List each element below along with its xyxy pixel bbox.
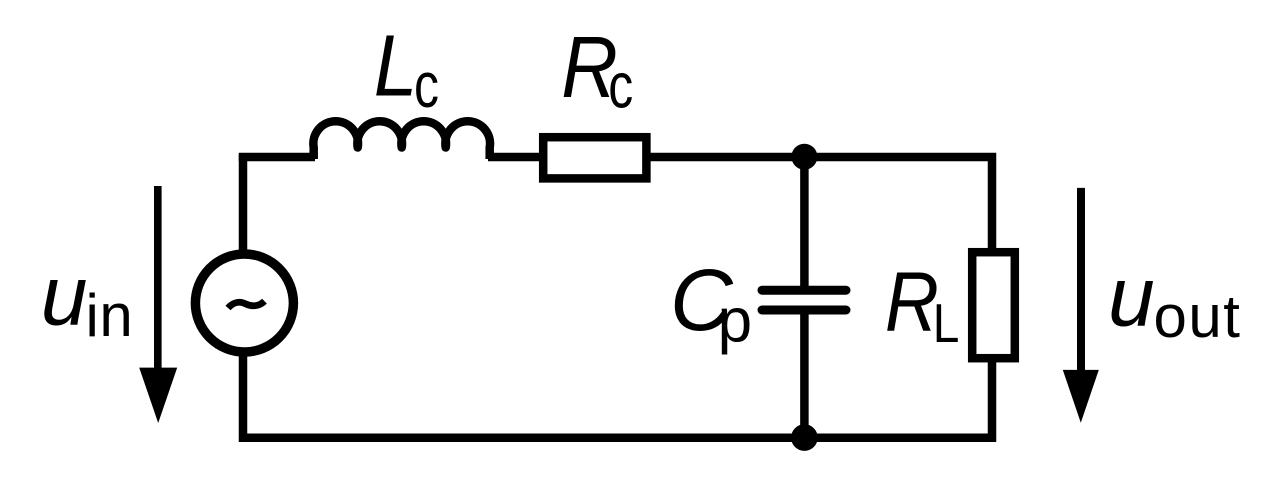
inductor Lc (4 humps) <box>313 121 490 159</box>
svg-text:u: u <box>41 248 88 342</box>
resistor RL (box) <box>972 252 1015 358</box>
resistor Rc (box) <box>543 137 646 178</box>
AC source sine tilde <box>228 301 265 308</box>
svg-text:L: L <box>374 17 418 115</box>
arrow uin (head) <box>139 368 177 423</box>
svg-text:p: p <box>718 287 752 356</box>
svg-text:c: c <box>608 51 633 122</box>
node: top junction dot <box>791 144 817 170</box>
svg-text:in: in <box>86 282 134 349</box>
capacitor Cp bottom plate <box>762 306 846 315</box>
capacitor Cp top plate <box>762 286 846 295</box>
wire: bottom horizontal <box>243 360 992 438</box>
arrow uout (head) <box>1063 370 1099 423</box>
svg-text:L: L <box>933 292 960 354</box>
svg-text:u: u <box>1108 249 1155 343</box>
arrow uout (line) <box>1077 188 1085 372</box>
svg-text:R: R <box>885 255 939 349</box>
wire: capacitor branch upper (top junction to top plate) <box>800 157 809 290</box>
node: bottom junction dot <box>791 424 818 451</box>
AC source (circle) <box>195 254 293 352</box>
wire: source circle to bottom-left corner <box>243 355 400 438</box>
wire: top-left horizontal (source top corner to inductor) <box>243 157 315 161</box>
wire: Rc box to top junction and on to right corner <box>649 157 992 250</box>
wire: capacitor branch lower (bottom plate to bottom junction) <box>800 310 809 438</box>
wire: left vertical, top wire to source circle <box>239 155 248 251</box>
wire: inductor to Rc box <box>488 153 541 162</box>
svg-text:c: c <box>414 50 439 121</box>
arrow uin (line) <box>154 186 162 372</box>
svg-text:out: out <box>1154 283 1242 350</box>
